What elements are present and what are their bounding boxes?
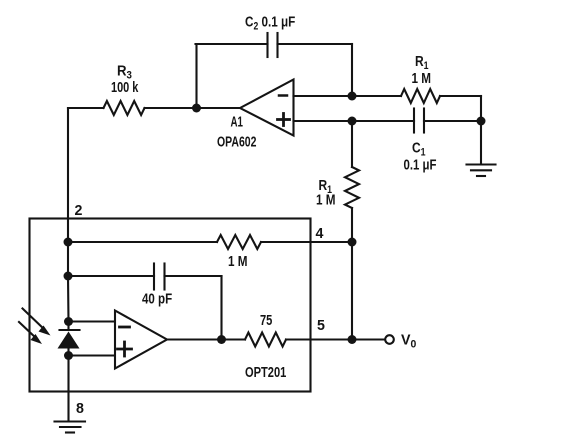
light arrow 2 [19,322,42,344]
resistor 1 M (feedback) [217,235,261,249]
svg-text:OPT201: OPT201 [245,363,286,380]
op-amp U2 (OPT201 internal, points right) [115,311,167,369]
U2 minus symbol [120,326,130,329]
wire C2 left vertical from R3 node up [195,44,197,108]
A1 plus symbol [278,114,290,126]
node 40pF junction [64,272,73,281]
svg-text:5: 5 [317,318,325,334]
wire C2 top right horizontal [278,43,353,45]
svg-text:2: 2 [75,203,83,219]
svg-text:C2 0.1 μF: C2 0.1 μF [245,13,295,33]
wire U2 output lead [167,338,222,340]
node inverting input / C2 / R1 [348,92,357,101]
wire vertical from non-inverting node down to R1 [351,121,353,167]
resistor R1 (top) [401,89,440,103]
wire to output terminal [352,338,385,340]
wire to C1 left plate [352,120,414,122]
wire A1 non-inverting input stub [294,120,353,122]
resistor R1 (vertical) [345,167,359,208]
svg-text:1 M: 1 M [228,253,247,270]
wire pin4 node down to pin5 node [351,242,353,340]
node non-inverting input / C1 / R1 vertical [348,117,357,126]
wire R3 left lead [68,107,104,109]
node photodiode cathode [64,317,73,326]
wire left vertical down to photodiode [67,276,70,322]
svg-text:1 M: 1 M [316,191,335,208]
wire C2 top left horizontal [196,43,268,45]
svg-text:A1: A1 [231,113,243,130]
node photodiode anode [64,351,73,360]
terminal V0 (open circle) [385,335,394,344]
photodiode D1 [58,322,80,356]
wire R3 right lead to node [145,107,197,109]
wire C1 right lead [424,120,481,122]
OPT201 package box [30,219,311,392]
wire to 75 resistor [222,338,246,340]
svg-text:40 pF: 40 pF [142,290,172,307]
resistor R3 [104,101,145,115]
wire 40pF vertical down to output node [220,276,222,340]
wire A1 inverting input stub [294,95,353,97]
node output / 40pF [217,335,226,344]
wire anode down through box to ground [67,356,69,422]
node at R3 / C2 / A1 output [192,104,201,113]
wire feedback right lead out pin 4 [261,241,352,243]
capacitor 40 pF [154,264,165,290]
wire feedback left lead [68,241,217,243]
ground (bottom, pin 8) [55,422,86,433]
node C1 / ground [477,117,486,126]
svg-text:1 M: 1 M [412,70,431,87]
node pin 5 / output [348,335,357,344]
wire down to right ground [480,121,482,164]
svg-text:4: 4 [316,226,325,242]
ground (right) [467,165,496,177]
wire 75 right lead out pin 5 [286,338,352,340]
wire A1 output lead [197,107,241,109]
svg-text:100 k: 100 k [111,78,139,95]
capacitor C2 [268,33,278,57]
svg-text:0.1 μF: 0.1 μF [404,156,437,173]
op-amp A1 (points left) [240,80,294,136]
svg-text:OPA602: OPA602 [217,133,256,150]
node feedback 1M junction [64,238,73,247]
node pin 4 [348,238,357,247]
resistor 75 [245,333,286,347]
wire inner op-amp non-inverting stub [69,354,116,356]
capacitor C1 [414,109,424,133]
svg-text:75: 75 [260,311,272,328]
wire 40pF right lead [165,275,222,277]
wire right vertical down to C1 node [480,96,482,121]
wire R1 bottom lead to pin4 node [351,208,353,242]
svg-text:V0: V0 [401,332,416,350]
wire left vertical from R3 down into box [67,108,69,242]
U2 plus symbol [118,342,132,356]
wire left vertical node to 40pF node [67,242,69,276]
wire to R1 top left lead [352,95,401,97]
wire 40pF left lead [68,275,154,277]
light arrow 1 [23,309,51,336]
svg-text:8: 8 [76,401,84,417]
wire C2 right vertical down to inverting node [351,44,353,96]
wire R1 right lead to corner [440,95,481,97]
A1 minus symbol [279,94,287,97]
wire inner op-amp inverting stub [69,320,116,322]
